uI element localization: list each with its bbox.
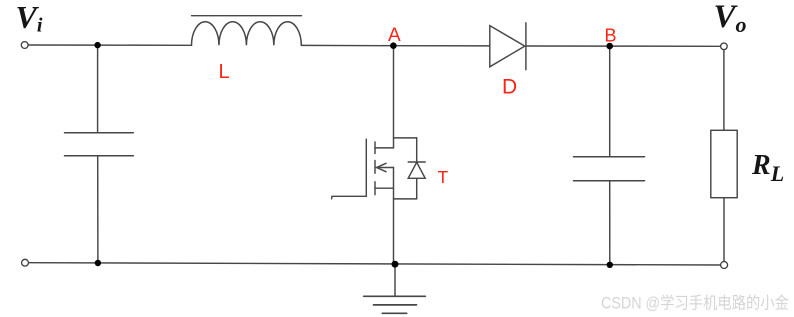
inductor L: [192, 16, 302, 46]
node A junction: [390, 42, 397, 49]
output terminal Vo-: [721, 262, 728, 269]
resistor RL: [711, 130, 737, 197]
node B junction: [606, 43, 613, 50]
svg-text:RL: RL: [751, 150, 784, 186]
wire: node A vertical to MOSFET drain: [393, 46, 395, 148]
wire left vertical: junction to input capacitor: [97, 45, 99, 133]
ground: [364, 296, 426, 313]
svg-text:L: L: [219, 61, 230, 83]
wire: inductor to node A: [301, 44, 393, 46]
svg-text:D: D: [502, 76, 517, 99]
output terminal Vo+: [721, 43, 728, 50]
wire: node B to output terminal: [610, 45, 721, 47]
wire: input capacitor to bottom rail: [97, 156, 99, 263]
wire: node B vertical to output capacitor: [609, 46, 611, 157]
wire bottom rail: [29, 263, 721, 265]
svg-text:CSDN @学习手机电路的小金: CSDN @学习手机电路的小金: [601, 294, 789, 313]
node junction left top: [94, 42, 100, 48]
wire: body diode bottom jog: [394, 198, 417, 200]
wire top-left: input terminal to left junction: [28, 44, 97, 46]
node junction ground: [392, 261, 399, 268]
svg-text:A: A: [388, 25, 401, 46]
svg-text:Vo: Vo: [714, 0, 747, 37]
node junction left bottom: [95, 260, 101, 266]
wire: load to bottom-right terminal: [723, 198, 725, 262]
svg-text:Vi: Vi: [16, 0, 43, 37]
body diode of T: [408, 138, 425, 199]
wire: ground stem: [394, 264, 396, 296]
diode D: [490, 23, 526, 70]
wire: output terminal down to load: [723, 50, 725, 131]
capacitor C-out: [574, 157, 645, 181]
capacitor C-in: [65, 133, 134, 156]
wire: drain jog to body diode: [394, 137, 417, 139]
svg-text:B: B: [605, 26, 617, 46]
wire: node A to diode anode: [393, 45, 490, 47]
input terminal Vi+: [21, 42, 28, 49]
node junction right bottom: [607, 262, 613, 268]
svg-text:T: T: [438, 167, 449, 187]
wire: output capacitor to bottom rail: [609, 181, 611, 265]
wire: diode cathode to node B: [526, 45, 610, 47]
input terminal Vi-: [22, 259, 29, 266]
transistor T (MOSFET): [332, 139, 394, 199]
wire: left junction to inductor: [98, 44, 192, 46]
wire: MOSFET source vertical to bottom rail: [393, 168, 395, 265]
